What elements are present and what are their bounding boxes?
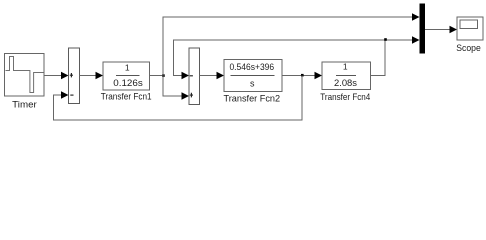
timer waveform icon (6, 57, 44, 93)
transfer fcn4 block (322, 62, 371, 90)
transfer fcn1 block (103, 62, 150, 90)
sum block Sum1 (69, 48, 80, 104)
wire TF1 to junction dot (150, 75, 164, 77)
svg-text:Transfer Fcn4: Transfer Fcn4 (320, 92, 370, 103)
sum block Sum2 (189, 48, 200, 105)
svg-text:0.126s: 0.126s (113, 78, 143, 88)
svg-text:Timer: Timer (12, 100, 37, 111)
wire Sum2 to Transfer Fcn2 (200, 75, 218, 77)
wire branch up to mux input 1 (163, 17, 413, 76)
wire Sum1 to Transfer Fcn1 (80, 75, 97, 77)
wire TF2 to TF4 (282, 75, 316, 77)
svg-text:2.08s: 2.08s (334, 78, 358, 88)
wire Timer to Sum1 (44, 75, 62, 77)
svg-text:Scope: Scope (456, 43, 481, 54)
svg-text:Transfer Fcn2: Transfer Fcn2 (224, 94, 281, 105)
transfer fcn2 block (224, 60, 282, 92)
svg-text:0.546s+396: 0.546s+396 (229, 62, 274, 72)
svg-text:1: 1 (343, 62, 348, 72)
wire TF4 feedback line to Sum2 minus input and mux input 2 (174, 40, 414, 76)
timer block (5, 54, 45, 97)
junction dot A (162, 74, 165, 77)
svg-text:s: s (250, 79, 255, 89)
mux bar (420, 4, 426, 54)
svg-text:Transfer Fcn1: Transfer Fcn1 (101, 92, 152, 103)
svg-text:1: 1 (125, 63, 130, 73)
junction dot C (384, 38, 387, 41)
wire mux to scope (425, 29, 451, 31)
wire branch down to Sum2 plus input (163, 76, 183, 97)
wire TF4 output riser to feedback line (371, 40, 386, 76)
scope screen (460, 20, 478, 29)
junction dot B on TF2 output (301, 74, 304, 77)
scope block (457, 17, 483, 40)
feedback wire TF2 output to Sum1 minus input (54, 76, 303, 121)
